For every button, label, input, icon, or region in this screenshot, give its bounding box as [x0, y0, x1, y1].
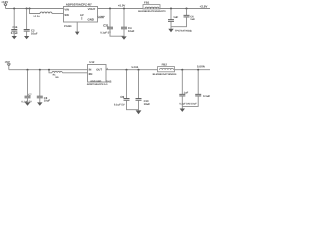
svg-text:SW: SW — [64, 13, 69, 17]
ferrite bead FB2 — [153, 63, 177, 77]
svg-text:0.1uF DNI 10uF: 0.1uF DNI 10uF — [179, 103, 197, 106]
wire U2 output rail — [106, 69, 158, 71]
svg-text:ADP5070ACPZ-R7: ADP5070ACPZ-R7 — [66, 2, 92, 6]
svg-text:5.0VA: 5.0VA — [197, 64, 206, 68]
pin stub EP U1 — [81, 17, 83, 20]
capacitor C6 — [171, 9, 195, 27]
junction dot C4 — [123, 8, 125, 10]
junction dot C6 — [186, 8, 188, 10]
svg-text:0.1uF 5V: 0.1uF 5V — [100, 31, 111, 34]
svg-text:TPS7A4700Ω/μ: TPS7A4700Ω/μ — [175, 30, 193, 33]
wire bottom input rail — [9, 69, 88, 71]
svg-text:0.1uF 5V: 0.1uF 5V — [114, 103, 125, 106]
svg-text:FB2: FB2 — [162, 63, 168, 67]
junction dot R1 drop — [48, 69, 50, 71]
pin stub COMP U1 — [98, 17, 105, 19]
svg-text:10uF: 10uF — [128, 30, 135, 33]
inductor L1 — [34, 12, 52, 18]
svg-text:FB1: FB1 — [144, 0, 150, 4]
capacitor C3 — [100, 9, 124, 37]
svg-text:COMP: COMP — [98, 15, 106, 18]
svg-text:VIN: VIN — [64, 7, 69, 11]
wire from terminal down — [5, 6, 7, 8]
ferrite bead FB1 — [138, 0, 166, 13]
capacitor C11 — [179, 70, 188, 107]
svg-text:C16: C16 — [13, 26, 18, 29]
wire FB1 to output — [160, 8, 210, 10]
svg-text:10uF: 10uF — [144, 103, 151, 106]
ground bottom right — [180, 109, 185, 112]
power terminal flag top-left — [4, 4, 8, 7]
junction dot C1 — [13, 8, 15, 10]
wire R1 to U2 — [62, 72, 87, 74]
svg-text:BLM18KIG471SN1D/470: BLM18KIG471SN1D/470 — [138, 10, 166, 13]
svg-text:5.0VA: 5.0VA — [132, 66, 139, 69]
svg-text:GND: GND — [88, 18, 94, 22]
wire U1 ground pin — [76, 22, 78, 32]
ground under C7 — [25, 102, 30, 105]
capacitor C9 — [114, 70, 139, 110]
svg-text:VOUT: VOUT — [88, 7, 96, 11]
svg-text:1uF: 1uF — [173, 15, 178, 19]
svg-text:PGND: PGND — [64, 25, 72, 28]
junction dot C12 — [197, 69, 199, 71]
svg-text:BLM18KIG471SN1D4: BLM18KIG471SN1D4 — [153, 73, 177, 76]
ground under C8 — [37, 102, 42, 105]
wire C11 to ground — [181, 106, 183, 108]
wire FB2 to output — [175, 69, 211, 71]
junction dot C10 — [138, 69, 140, 71]
ground under C2 — [24, 36, 29, 39]
capacitor C7 — [21, 70, 32, 104]
svg-text:SNS: SNS — [106, 80, 112, 83]
capacitor C10 — [136, 70, 151, 111]
wire U1 output rail — [98, 8, 144, 10]
svg-text:IN: IN — [89, 69, 92, 72]
svg-text:10uF: 10uF — [44, 100, 51, 103]
resistor R1 inline — [52, 72, 62, 80]
junction dot C11 — [181, 69, 183, 71]
junction dot C5 — [170, 8, 172, 10]
junction dot C3 — [109, 8, 111, 10]
op-amp U2 LDO box — [88, 61, 107, 82]
svg-text:ADM7150ACPZ-5.0: ADM7150ACPZ-5.0 — [87, 83, 108, 86]
capacitor C1 — [11, 9, 19, 37]
op-amp U1 regulator box — [64, 2, 98, 22]
wire drop to inductor — [30, 9, 41, 14]
svg-text:10uF: 10uF — [31, 31, 38, 35]
junction dot C2 — [26, 8, 28, 10]
svg-text:0.1uF: 0.1uF — [203, 95, 210, 98]
ground under C5 — [168, 29, 173, 32]
svg-text:1uF: 1uF — [190, 18, 195, 21]
svg-text:EN: EN — [89, 73, 93, 76]
capacitor C2 — [24, 9, 38, 37]
svg-text:OUT: OUT — [96, 68, 102, 71]
wire top input rail — [6, 8, 64, 10]
ground arrow U1 — [75, 32, 80, 35]
ground under C1 — [12, 36, 17, 39]
power terminal flag bottom-left — [7, 63, 11, 66]
svg-text:U12: U12 — [89, 61, 94, 64]
svg-text:C31: C31 — [103, 23, 109, 27]
svg-text:0Ω: 0Ω — [55, 76, 58, 79]
ground under C10 — [136, 110, 142, 114]
svg-text:+5.0V: +5.0V — [118, 4, 126, 8]
wire drop to R1 — [49, 70, 52, 73]
capacitor C5 — [168, 9, 179, 29]
svg-text:L1 1u: L1 1u — [34, 15, 41, 18]
wire terminal down bottom — [8, 66, 10, 70]
junction dot C9 — [126, 69, 128, 71]
junction dot L1 — [29, 8, 31, 10]
capacitor C4 — [121, 9, 135, 37]
svg-text:EP: EP — [80, 14, 84, 17]
svg-text:+2.5V: +2.5V — [200, 4, 208, 8]
capacitor C8 — [37, 70, 51, 103]
wire inductor to SW pin — [52, 13, 64, 15]
svg-text:GND GND: GND GND — [90, 80, 101, 83]
ground under C4 — [121, 36, 126, 39]
junction dot C8 — [39, 69, 41, 71]
capacitor C12 — [182, 70, 210, 107]
junction dot C7 — [27, 69, 29, 71]
